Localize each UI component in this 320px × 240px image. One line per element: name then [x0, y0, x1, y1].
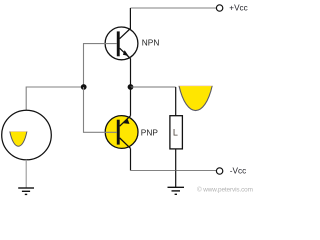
wire: inductor top lead — [175, 87, 177, 116]
wire: NPN collector lead to top rail — [129, 8, 131, 29]
svg-text:L: L — [173, 127, 178, 137]
wire: output node to inductor top — [131, 86, 176, 88]
waveform: input negative half-cycle — [10, 131, 27, 146]
svg-text:+Vcc: +Vcc — [229, 4, 247, 13]
svg-text:PNP: PNP — [141, 127, 159, 137]
inductor L — [170, 116, 183, 171]
transistor Q1 NPN — [105, 27, 138, 60]
terminal -Vcc — [216, 168, 222, 174]
source V1 (signal source) — [2, 110, 52, 160]
svg-text:NPN: NPN — [142, 38, 160, 48]
wire: bottom -Vcc rail — [131, 170, 217, 172]
ground (left) — [18, 188, 34, 194]
svg-text:-Vcc: -Vcc — [230, 167, 246, 176]
wire: signal source to input node — [26, 87, 83, 110]
waveform: output negative half-cycle across L — [179, 86, 212, 111]
ground (right) — [168, 171, 185, 195]
wire: PNP emitter to output node — [130, 87, 132, 116]
wire: source to ground — [25, 160, 27, 188]
wire: PNP collector to bottom rail — [130, 148, 132, 170]
wire: NPN base to input node — [84, 44, 118, 87]
wire: input node to PNP base — [84, 87, 118, 132]
transistor Q2 PNP — [105, 116, 138, 149]
node: input junction (bases) — [81, 84, 87, 90]
terminal +Vcc — [216, 5, 222, 11]
wire: NPN emitter to output node — [130, 59, 132, 87]
svg-text:© www.petervis.com: © www.petervis.com — [197, 186, 253, 194]
node: output junction (emitters) — [128, 84, 134, 90]
wire: top +Vcc rail — [130, 7, 216, 9]
